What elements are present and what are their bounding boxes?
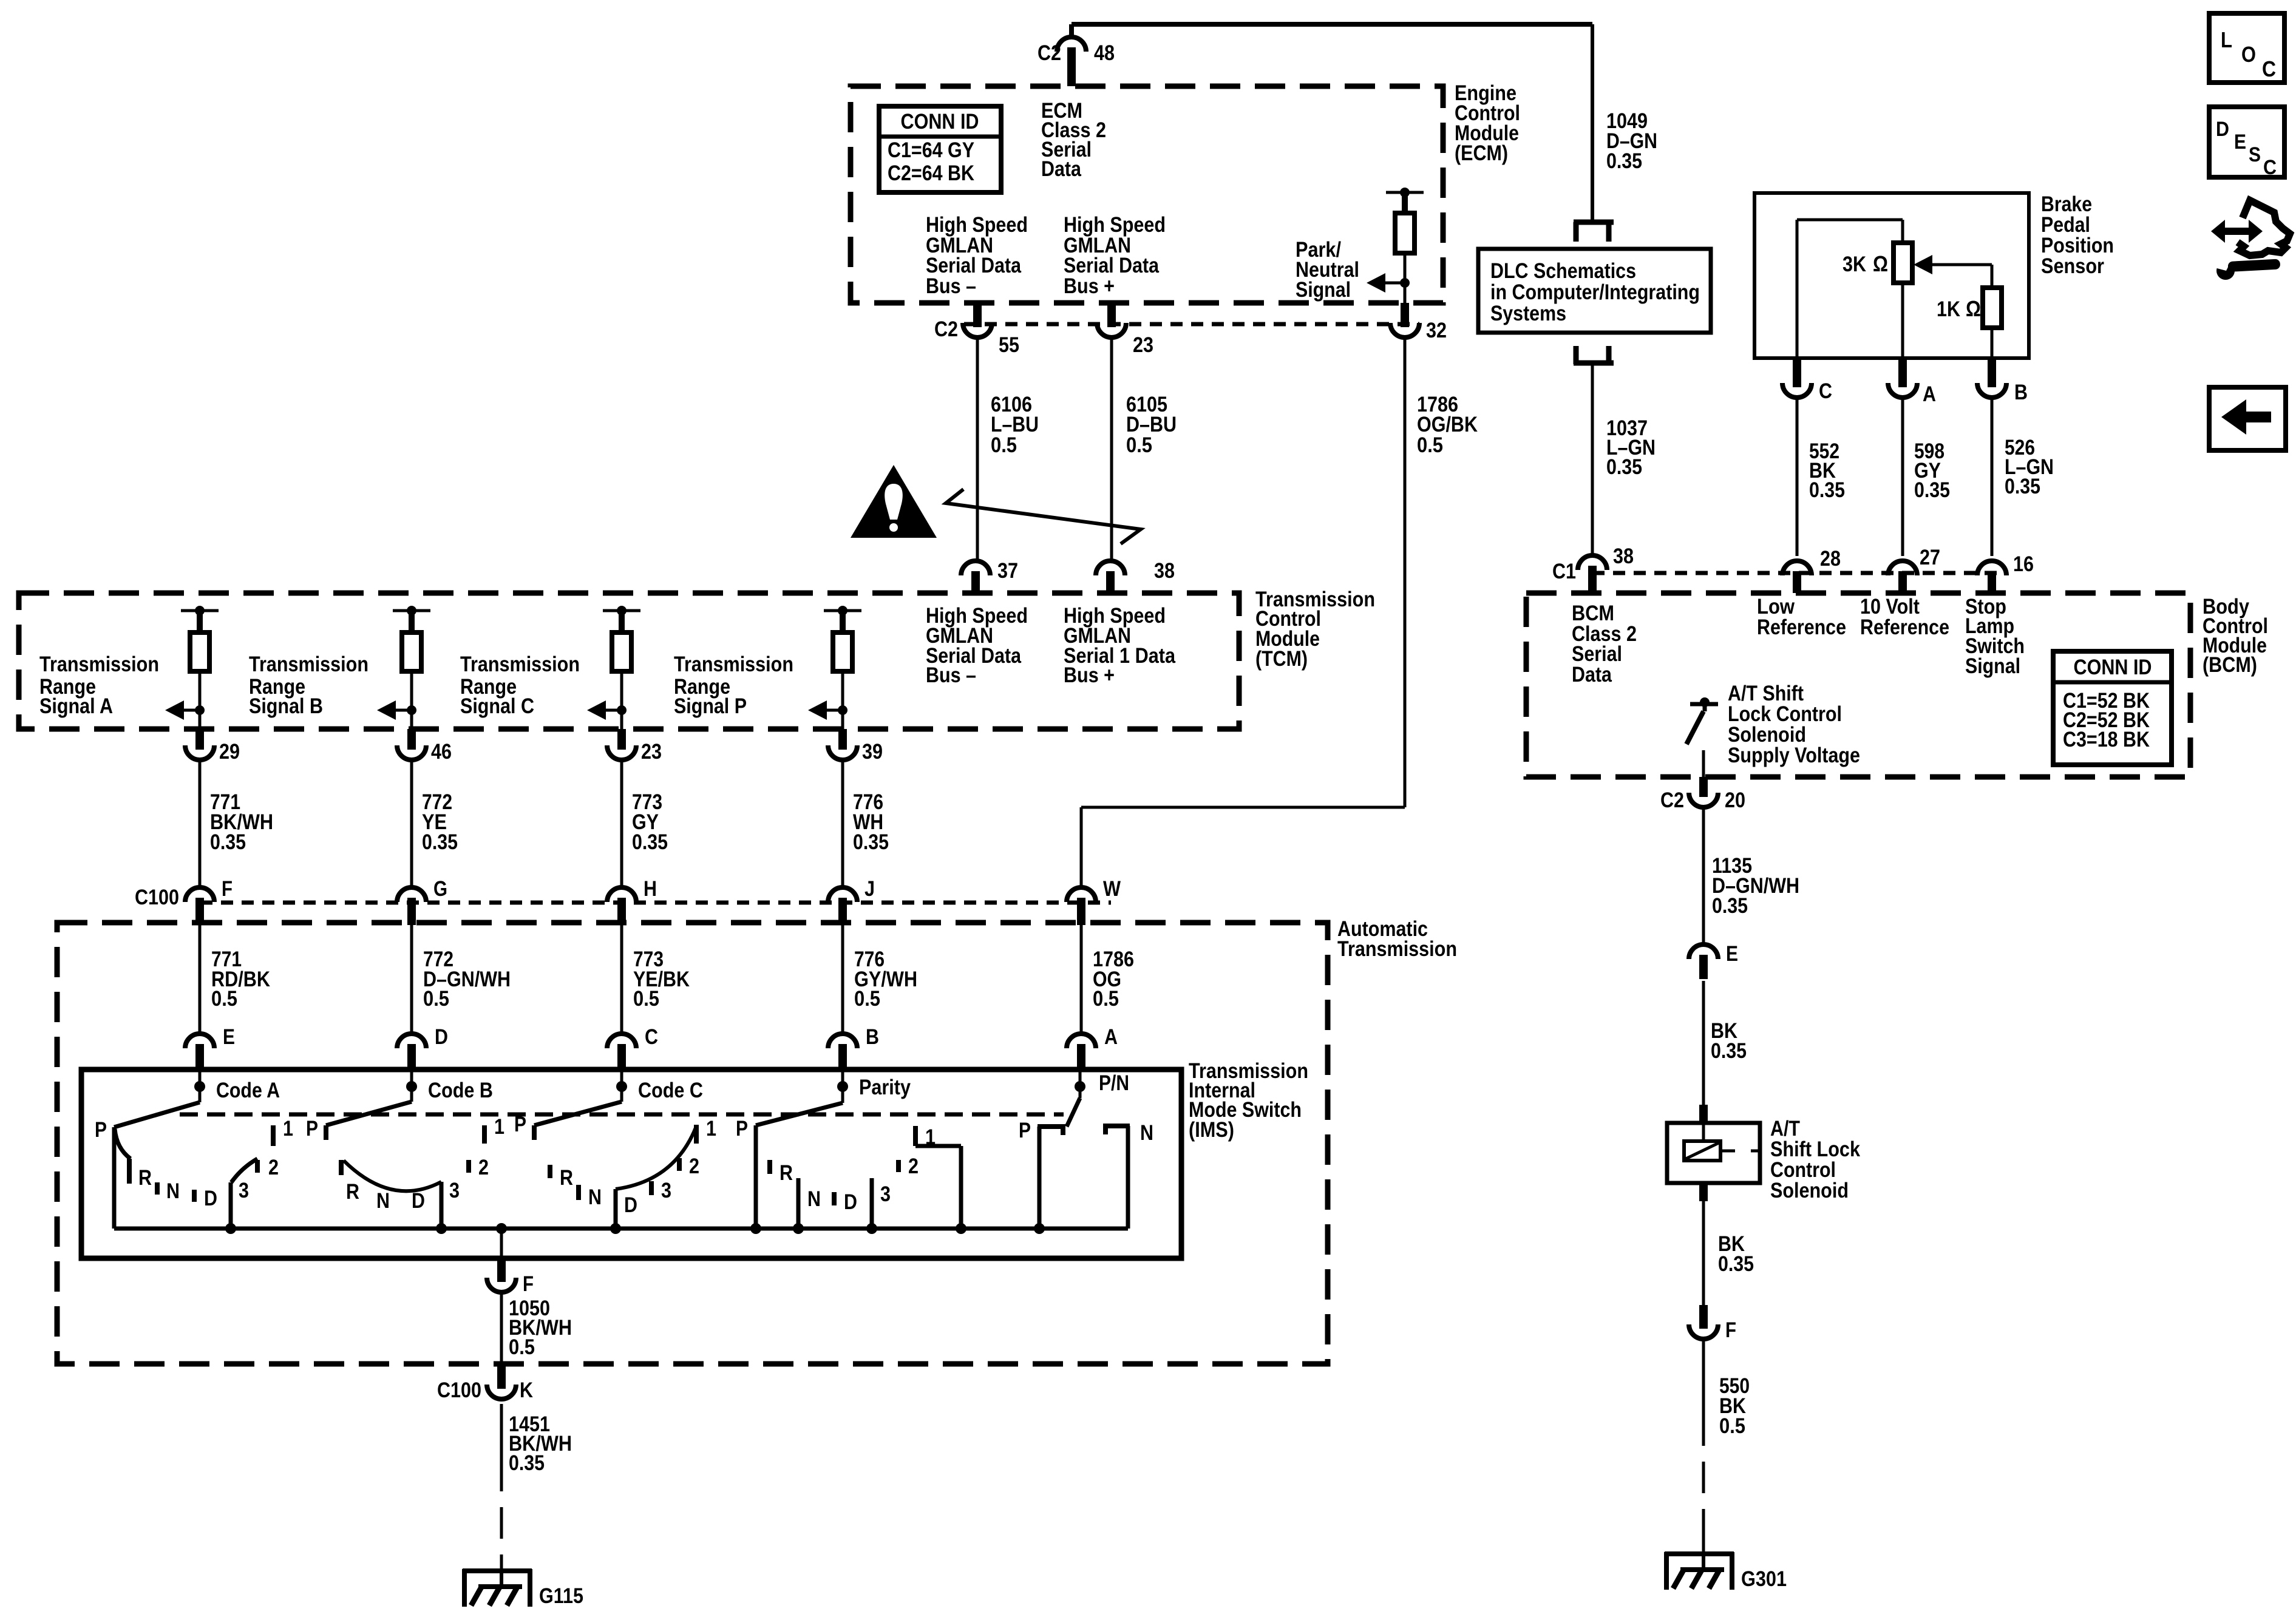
DLC Schematics box (1478, 249, 1711, 333)
wire arrow node to TCM edge col B (410, 710, 413, 729)
svg-text:Signal: Signal (1296, 278, 1351, 302)
wire sensor internal C leg (1797, 220, 1903, 364)
node Code B output on bus (436, 1223, 447, 1234)
contact tick 1 (Code B) (482, 1125, 487, 1144)
svg-text:Sensor: Sensor (2041, 254, 2104, 278)
svg-text:39: 39 (862, 740, 883, 764)
resistor Transmission Range Signal B (TCM internal) (402, 632, 421, 671)
svg-text:20: 20 (1725, 788, 1745, 812)
label 598 GY 0.35 (1914, 439, 1950, 502)
svg-text:0.35: 0.35 (1718, 1252, 1754, 1276)
connector pin E (inline) (1689, 944, 1718, 979)
connector pin F (inline) (1689, 1305, 1718, 1339)
wire 6106 L-BU 0.5 (pin 55 to TCM 37) (976, 337, 979, 561)
label 27 (1920, 546, 1940, 569)
label Engine Control Module (ECM) (1455, 81, 1520, 165)
svg-text:Solenoid: Solenoid (1770, 1179, 1849, 1202)
wire Code B output to bus (440, 1182, 444, 1229)
label N (Parity) (807, 1187, 821, 1211)
svg-text:F: F (523, 1272, 534, 1296)
svg-text:Bus –: Bus – (926, 274, 976, 298)
label 772 D&#8211;GN/WH 0.5 (423, 947, 511, 1011)
switch Code B P terminal stub (324, 1125, 328, 1140)
CONN ID table (ECM) (879, 106, 1001, 192)
wire IMS bus to connector F (500, 1229, 503, 1258)
wire 776 GY/WH (C100 J to B) (841, 924, 844, 1034)
contact tick 2 (Parity) (896, 1160, 901, 1172)
svg-text:S: S (2249, 143, 2261, 166)
svg-text:48: 48 (1094, 41, 1115, 65)
A/T Shift Lock Control Solenoid box (1667, 1123, 1760, 1183)
connector C100 pin F (185, 887, 214, 925)
svg-text:G115: G115 (539, 1584, 583, 1608)
wire contact 3 to bus (Parity) (870, 1178, 874, 1229)
svg-text:32: 32 (1426, 319, 1447, 342)
svg-text:A: A (1923, 382, 1936, 406)
Automatic Transmission box (dashed) (57, 923, 1328, 1364)
wire 776 WH (TCM 39 to C100) (841, 760, 844, 888)
wire 771 BK/WH (TCM 29 to C100) (199, 760, 202, 888)
svg-text:Transmission: Transmission (249, 653, 369, 676)
node Parity N on bus (793, 1223, 804, 1234)
switch blade P/N (1067, 1098, 1080, 1127)
label 3 (Parity) (880, 1182, 891, 1206)
svg-text:0.35: 0.35 (632, 830, 668, 854)
label P (Code B) (306, 1117, 318, 1141)
wire switch to BCM edge (1702, 750, 1705, 777)
svg-text:Transmission: Transmission (460, 653, 580, 676)
label P/N (1099, 1071, 1129, 1095)
svg-text:Transmission: Transmission (1337, 937, 1457, 961)
contact tick R (Code B) (339, 1160, 344, 1175)
node Code C junction (616, 1070, 627, 1102)
label 526 L-GN 0.35 (2005, 436, 2054, 498)
svg-text:(IMS): (IMS) (1189, 1118, 1234, 1142)
svg-text:0.5: 0.5 (1719, 1414, 1745, 1438)
svg-text:2: 2 (689, 1154, 699, 1178)
label 776 WH 0.35 (853, 790, 889, 854)
svg-text:2: 2 (268, 1156, 279, 1179)
wire Parity P to bus (754, 1125, 758, 1229)
switch blade Code B (326, 1102, 412, 1125)
label C100 (K row) (437, 1378, 481, 1402)
connector C100 pin K (487, 1364, 516, 1399)
label N (Code B) (376, 1189, 390, 1213)
label BK 0.35 (upper) (1711, 1019, 1747, 1063)
label 3K ohm (1843, 251, 1888, 276)
arrow Transmission Range Signal C (points left) (587, 700, 622, 720)
wire 6105 D-BU 0.5 (pin 23 to TCM 38) (1110, 337, 1113, 561)
label 6106 L-BU 0.5 (991, 393, 1039, 457)
svg-text:E: E (2234, 131, 2246, 154)
svg-text:L: L (2221, 27, 2232, 52)
node arrow junction (Park/Neutral) (1400, 278, 1410, 288)
label R (Code B) (346, 1180, 359, 1204)
svg-text:G: G (433, 877, 447, 901)
svg-text:Code A: Code A (216, 1079, 280, 1102)
contact tick 3 (Code C) (649, 1181, 654, 1195)
label D (Code C) (624, 1193, 637, 1217)
label 1786 OG/BK 0.5 (1417, 393, 1478, 457)
svg-text:0.35: 0.35 (2005, 475, 2040, 498)
svg-text:N: N (588, 1185, 602, 1209)
svg-text:R: R (138, 1166, 152, 1190)
label J (C100) (864, 877, 875, 901)
resistor Transmission Range Signal P (TCM internal) (833, 632, 852, 671)
svg-text:R: R (560, 1166, 573, 1190)
wire 771 RD/BK (C100 F to E) (199, 924, 202, 1034)
label 46 (431, 740, 452, 764)
icon DESC box (2209, 107, 2284, 179)
arrow Transmission Range Signal P (points left) (808, 700, 843, 720)
svg-text:0.35: 0.35 (1712, 894, 1748, 918)
label BCM Class 2 Serial Data (1572, 602, 1637, 686)
label Parity (859, 1076, 911, 1099)
label Automatic Transmission (1337, 917, 1457, 961)
label Transmission Internal Mode Switch (IMS) (1189, 1059, 1308, 1142)
svg-text:W: W (1103, 877, 1121, 901)
wire 773 GY (TCM 23 to C100) (620, 760, 623, 888)
svg-text:C100: C100 (437, 1378, 481, 1402)
label 771 RD/BK 0.5 (211, 947, 270, 1011)
svg-text:27: 27 (1920, 546, 1940, 569)
wire 1451 BK/WH to G115 (part solid part dashed) (500, 1404, 503, 1570)
contact N bracket (P/N) (1103, 1126, 1130, 1229)
label R (Code A) (138, 1166, 152, 1190)
svg-text:D: D (204, 1187, 217, 1210)
svg-text:2: 2 (478, 1156, 489, 1179)
label ECM Class 2 Serial Data (1041, 99, 1106, 181)
label 1 (Parity) (925, 1125, 936, 1149)
label G (C100) (433, 877, 447, 901)
svg-text:Systems: Systems (1490, 302, 1566, 325)
wire 1786 OG (C100 W to A) (1080, 924, 1083, 1034)
icon arrows-wrench (connector end view) (2211, 200, 2290, 280)
label 23 (641, 740, 662, 764)
svg-text:P: P (306, 1117, 318, 1141)
label Transmission Range Signal P (674, 653, 793, 718)
svg-text:N: N (166, 1179, 180, 1203)
svg-text:D: D (412, 1189, 425, 1213)
svg-text:CONN ID: CONN ID (901, 110, 979, 134)
label Code B (428, 1079, 493, 1102)
label A/T Shift Lock Control Solenoid Supply Voltage (1728, 682, 1860, 767)
connector pin 55 (ECM C2) (963, 303, 992, 337)
node Parity junction (837, 1070, 848, 1103)
svg-text:0.5: 0.5 (1417, 433, 1443, 457)
label C100 (135, 886, 179, 909)
contact tick R (Parity) (767, 1160, 772, 1174)
contact tick 2 (Code C) (677, 1158, 682, 1171)
node arrow junction col A (195, 705, 205, 715)
connector pin A (transmission) (1067, 1034, 1096, 1072)
label C (sensor) (1819, 379, 1832, 403)
svg-text:Ω: Ω (1966, 296, 1981, 321)
connector pin B (sensor) (1977, 358, 2006, 398)
connector pin 46 (TCM bottom) (397, 729, 426, 760)
wire BK 0.35 (solenoid to F) (1702, 1201, 1705, 1306)
svg-text:Bus +: Bus + (1064, 663, 1115, 687)
svg-text:Signal A: Signal A (39, 694, 113, 718)
label 550 BK 0.5 (1719, 1374, 1750, 1438)
label C1 (1552, 560, 1576, 583)
svg-text:0.5: 0.5 (854, 987, 880, 1011)
label A/T Shift Lock Control Solenoid (1770, 1117, 1860, 1202)
label F (IMS output) (523, 1272, 534, 1296)
label P (Code C) (514, 1113, 526, 1136)
wire T-bar to resistor (thick) col P (840, 611, 846, 632)
potentiometer wiper arrow (points left into 3K) (1914, 255, 1992, 288)
svg-text:D: D (624, 1193, 637, 1217)
label D (Parity) (844, 1190, 857, 1214)
label R (Parity) (779, 1161, 793, 1185)
label DLC Schematics in Computer/Integrating Systems (1490, 259, 1700, 325)
switch Code C P terminal stub (532, 1125, 537, 1140)
connector pin 29 (TCM bottom) (185, 729, 214, 760)
label 1 (Code A) (283, 1117, 293, 1141)
connector pin 32 (ECM C2) (1390, 303, 1419, 337)
svg-text:C2: C2 (1660, 788, 1684, 812)
label 776 GY/WH 0.5 (854, 947, 917, 1011)
svg-text:C2: C2 (934, 317, 958, 341)
wire resistor to arrow node col A (199, 671, 202, 710)
label 1786 OG 0.5 (1093, 947, 1134, 1011)
connector pin E (transmission) (185, 1034, 214, 1072)
ground G301 (1665, 1552, 1734, 1590)
wire 1135 D-GN/WH (20 to E) (1702, 808, 1705, 945)
label A (sensor) (1923, 382, 1936, 406)
svg-text:3: 3 (661, 1179, 671, 1202)
node Code A junction (194, 1070, 205, 1102)
solenoid coil symbol (1684, 1141, 1760, 1161)
svg-text:R: R (779, 1161, 793, 1185)
svg-text:3: 3 (880, 1182, 891, 1206)
contact tick R (Code A) (127, 1159, 132, 1184)
svg-text:55: 55 (999, 333, 1019, 357)
connector pin 37 (TCM) (961, 561, 990, 593)
IMS wiper link line (fine dashed) (180, 1113, 1064, 1117)
svg-text:1: 1 (494, 1115, 504, 1139)
label High Speed GMLAN Serial Data Bus + (ECM) (1064, 213, 1166, 298)
svg-text:C: C (645, 1025, 658, 1049)
label 1135 D-GN/WH 0.35 (1712, 854, 1799, 918)
contact tick 1 (Code C) (694, 1125, 699, 1144)
label 2 (Parity) (908, 1154, 919, 1178)
label 1 (Code C) (706, 1117, 716, 1141)
label Transmission Range Signal C (460, 653, 580, 718)
wire resistor to arrow node col P (841, 671, 844, 710)
wire from ECM C2-48 to DLC drop (top horizontal) (1072, 24, 1592, 220)
node Parity 3 on bus (866, 1223, 877, 1234)
svg-text:F: F (1725, 1318, 1736, 1342)
svg-text:DLC Schematics: DLC Schematics (1490, 259, 1636, 283)
switch Code B wiper arc R-to-3 (344, 1161, 441, 1191)
svg-text:0.35: 0.35 (509, 1451, 545, 1475)
label H (C100) (644, 877, 657, 901)
label B (transmission connector) (866, 1025, 879, 1049)
label High Speed GMLAN Serial Data Bus - (TCM) (926, 604, 1028, 687)
wire T-bar to resistor (thick) (1402, 192, 1408, 213)
label N (Code A) (166, 1179, 180, 1203)
wire arrow node to TCM edge col C (620, 710, 623, 729)
label Brake Pedal Position Sensor (2041, 192, 2114, 278)
label 39 (862, 740, 883, 764)
label 2 (Code C) (689, 1154, 699, 1178)
svg-text:37: 37 (997, 559, 1018, 583)
wire 773 YE/BK (C100 H to C) (620, 924, 623, 1034)
svg-text:3: 3 (239, 1179, 249, 1202)
connector pin C (transmission) (607, 1034, 636, 1072)
label 23 (ECM) (1133, 333, 1153, 357)
wire stub into solenoid box (thick) (1699, 1105, 1708, 1124)
label 6105 D-BU 0.5 (1126, 393, 1177, 457)
switch Code A arc 2-to-3 (231, 1159, 257, 1182)
label 37 (997, 559, 1018, 583)
label F (inline connector) (1725, 1318, 1736, 1342)
wire 1050 BK/WH (F to C100 K) (500, 1293, 503, 1366)
warning triangle symbol (851, 465, 937, 538)
connector pin 27 (BCM) (1888, 561, 1917, 593)
label Code C (638, 1079, 703, 1102)
svg-text:C2=64 BK: C2=64 BK (888, 161, 974, 185)
connector pin A (sensor) (1888, 358, 1917, 398)
wire 1786 OG/BK 0.5 (pin 32 to C100 W) (1081, 337, 1405, 888)
connector C2 pin 20 (BCM bottom) (1689, 777, 1718, 807)
Transmission Internal Mode Switch box (solid) (81, 1070, 1181, 1258)
IMS common bus wire (114, 1227, 1128, 1231)
svg-text:Signal P: Signal P (674, 694, 747, 718)
label 29 (219, 740, 240, 764)
contact P bracket to bus (P/N) (1038, 1127, 1065, 1229)
contact tick 2 (Code B) (466, 1160, 471, 1173)
label C2 (BCM C2-20) (1660, 788, 1684, 812)
svg-text:0.35: 0.35 (210, 830, 246, 854)
svg-text:0.5: 0.5 (1093, 987, 1119, 1011)
svg-text:D: D (435, 1025, 448, 1049)
label P (Code A) (95, 1118, 107, 1142)
svg-text:0.5: 0.5 (1126, 433, 1152, 457)
label C2 (connector C2-48) (1038, 41, 1061, 65)
svg-text:0.35: 0.35 (1711, 1039, 1747, 1063)
wire 598 GY (A to BCM 27) (1901, 396, 1904, 556)
label G301 (1741, 1567, 1787, 1591)
label 3 (Code B) (449, 1179, 460, 1202)
node T-bar above TCM resistor 4 (824, 606, 861, 615)
ECM C2 connector line (fine dashed) (964, 322, 1419, 327)
label 55 (999, 333, 1019, 357)
svg-text:O: O (2241, 42, 2256, 67)
resistor Transmission Range Signal A (TCM internal) (190, 632, 209, 671)
svg-text:Bus –: Bus – (926, 663, 976, 687)
contact tick N (Code C) (576, 1185, 581, 1200)
node Code B junction (406, 1070, 417, 1102)
label P (P/N) (1019, 1119, 1031, 1142)
wire top to 3K resistor (1901, 220, 1904, 243)
wire 550 BK (F to G301) (1702, 1340, 1705, 1554)
label F (C100) (222, 877, 233, 901)
svg-text:Transmission: Transmission (39, 653, 159, 676)
svg-text:P: P (514, 1113, 526, 1136)
svg-text:B: B (2014, 381, 2028, 404)
svg-text:16: 16 (2013, 552, 2034, 576)
wire 3K to connector A (1901, 283, 1904, 364)
svg-text:in Computer/Integrating: in Computer/Integrating (1490, 280, 1700, 304)
svg-text:C2: C2 (1038, 41, 1061, 65)
svg-text:0.35: 0.35 (1914, 478, 1950, 502)
label E (inline connector) (1726, 942, 1738, 966)
node arrow junction col B (407, 705, 416, 715)
svg-text:Transmission: Transmission (674, 653, 793, 676)
svg-text:N: N (1140, 1121, 1153, 1145)
label G115 (539, 1584, 583, 1608)
svg-text:Data: Data (1041, 157, 1081, 181)
off-page bracket above DLC box (1574, 222, 1614, 242)
node P/N junction (1075, 1070, 1085, 1098)
icon LOC box (2209, 13, 2284, 83)
connector pin 16 (BCM) (1977, 561, 2006, 593)
label 1451 BK/WH 0.35 (509, 1412, 572, 1475)
C100 connector line (fine dashed) (200, 901, 1111, 905)
label 28 (1820, 547, 1841, 571)
wire 552 BK (C to BCM 28) (1796, 396, 1799, 556)
resistor Transmission Range Signal C (TCM internal) (612, 632, 631, 671)
label B (sensor) (2014, 381, 2028, 404)
svg-text:0.5: 0.5 (509, 1335, 535, 1359)
label 1049 D-GN 0.35 (1606, 109, 1657, 173)
svg-text:Bus +: Bus + (1064, 274, 1115, 298)
svg-text:3: 3 (449, 1179, 460, 1202)
svg-text:N: N (376, 1189, 390, 1213)
label Stop Lamp Switch Signal (1965, 595, 2025, 678)
wire Code A P to bus (112, 1127, 117, 1229)
node T-bar above TCM resistor 2 (393, 606, 430, 615)
svg-text:1: 1 (706, 1117, 716, 1141)
label 20 (1725, 788, 1745, 812)
svg-text:(TCM): (TCM) (1255, 647, 1308, 671)
label Code A (216, 1079, 280, 1102)
label 552 BK 0.35 (1809, 439, 1845, 502)
svg-text:N: N (807, 1187, 821, 1211)
wire resistor to arrow node col B (410, 671, 413, 710)
icon back-arrow box (2209, 387, 2286, 450)
resistor 1K (1983, 288, 2002, 328)
label C (transmission connector) (645, 1025, 658, 1049)
connector pin C (sensor) (1782, 358, 1812, 398)
label 2 (Code B) (478, 1156, 489, 1179)
svg-text:29: 29 (219, 740, 240, 764)
switch A/T shift lock supply (BCM internal) (1686, 697, 1718, 744)
wire Code C output to bus (614, 1189, 618, 1229)
label P (Parity) (736, 1117, 748, 1141)
label E (transmission connector) (223, 1025, 235, 1049)
label 48 (connector C2-48) (1094, 41, 1115, 65)
wire 1K to connector B (1991, 328, 1994, 364)
off-page bracket below DLC box (1574, 346, 1614, 364)
wire arrow node to TCM edge col P (841, 710, 844, 729)
svg-text:0.35: 0.35 (1809, 478, 1845, 502)
svg-text:0.5: 0.5 (991, 433, 1017, 457)
contact tick 1 with jog to bus (Parity) (915, 1126, 961, 1229)
wire resistor to arrow node (1404, 253, 1407, 283)
contact tick 2 (Code A) (255, 1160, 260, 1173)
svg-text:G301: G301 (1741, 1567, 1787, 1591)
svg-text:E: E (223, 1025, 235, 1049)
wire arrow node to ECM edge (1404, 283, 1407, 303)
arrow Transmission Range Signal B (points left) (377, 700, 412, 720)
svg-text:Signal B: Signal B (249, 694, 323, 718)
TCM module box (dashed) (19, 593, 1239, 729)
node T-bar above TCM resistor 3 (603, 606, 640, 615)
